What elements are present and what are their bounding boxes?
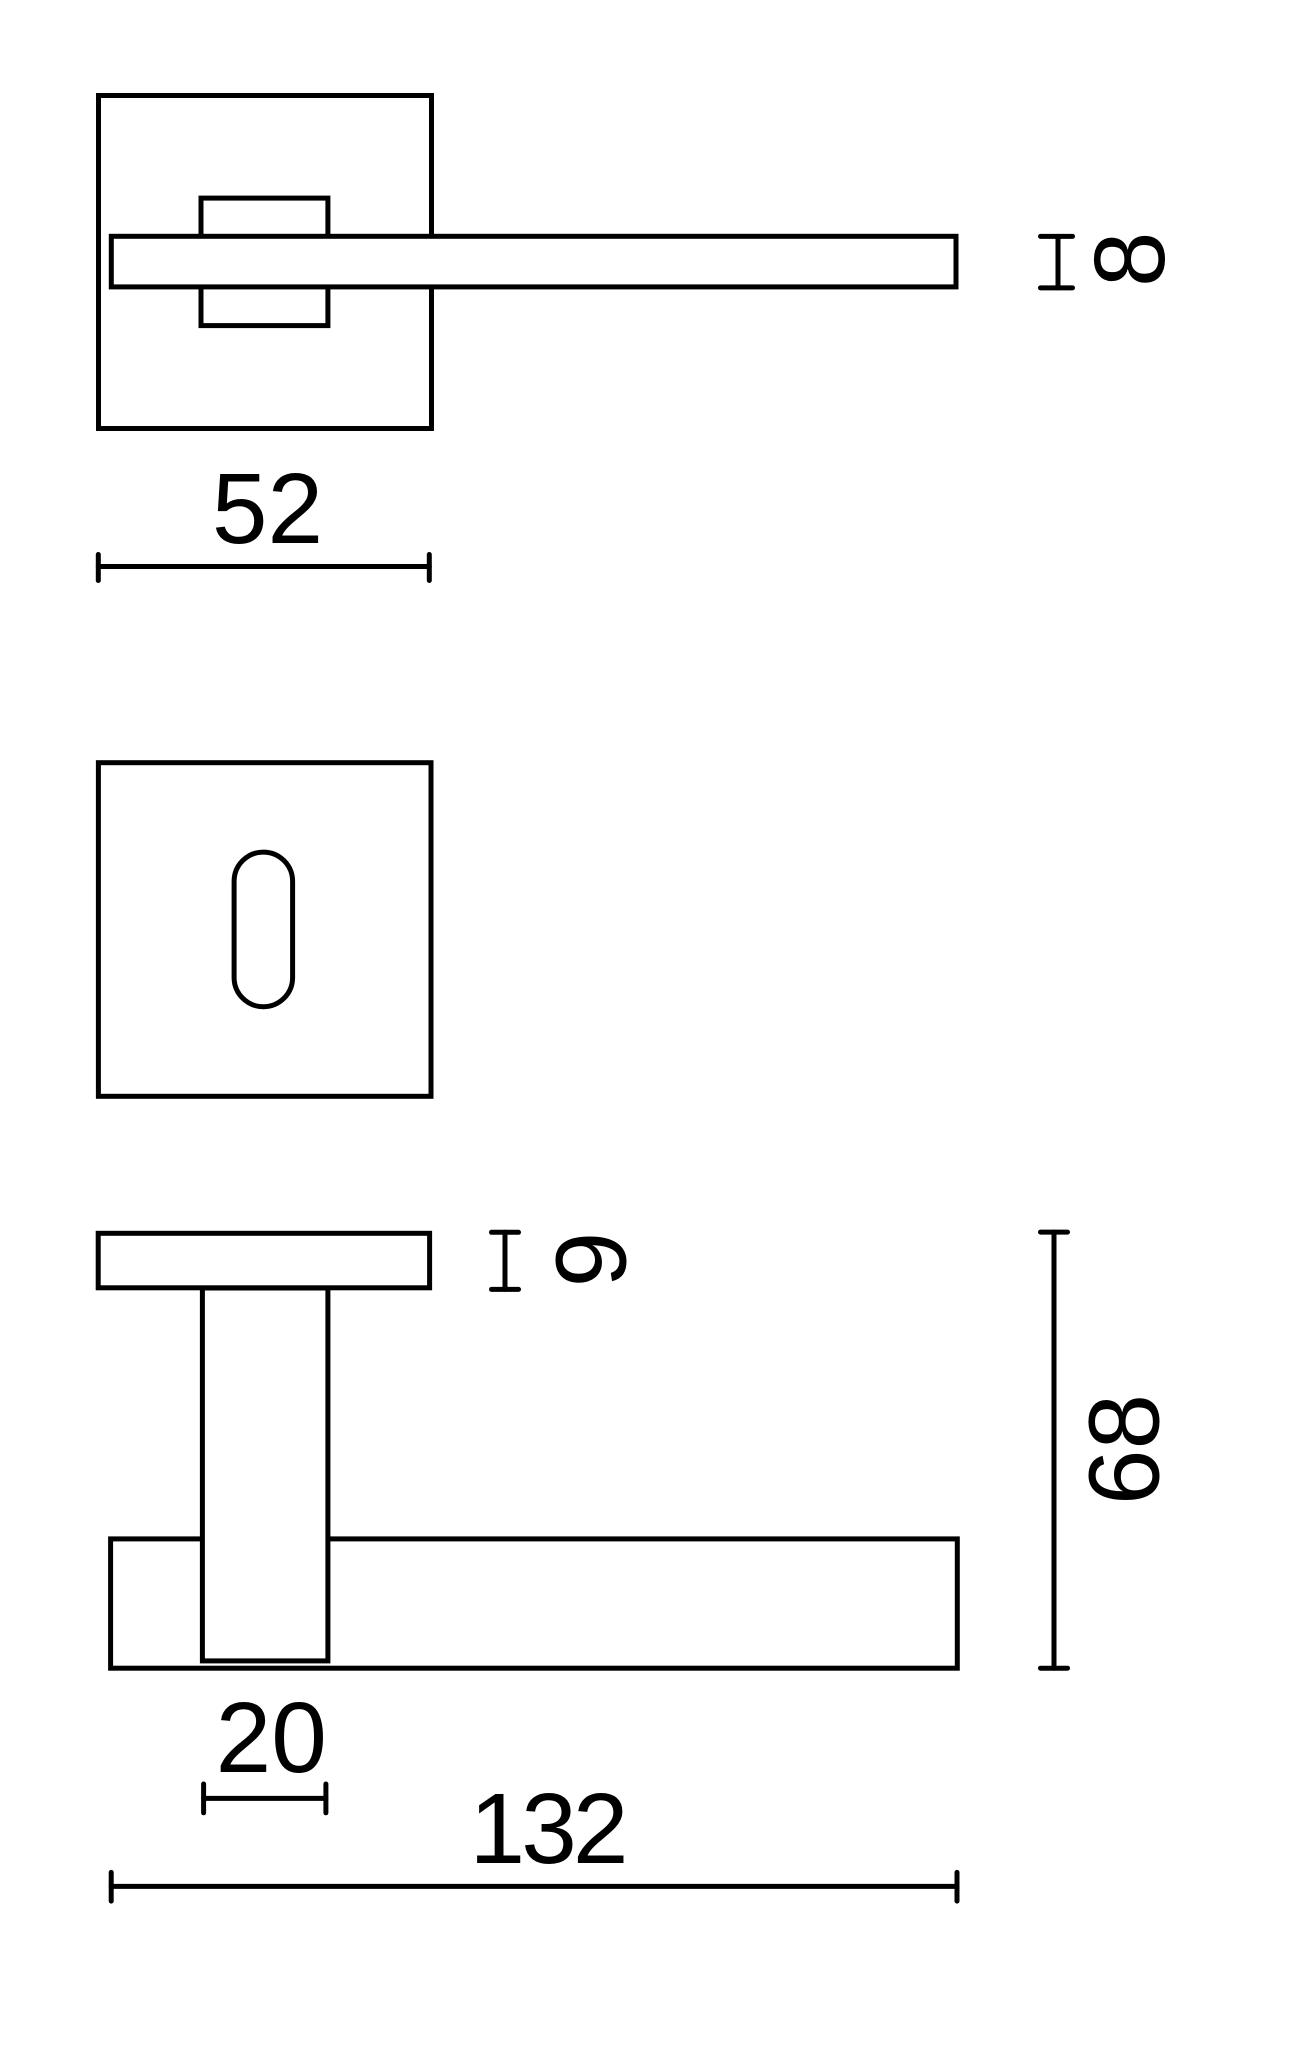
dimension line 52	[98, 555, 429, 581]
svg-text:52: 52	[212, 453, 323, 565]
keyhole oval	[234, 852, 293, 1007]
neck square behind lever	[201, 198, 328, 326]
lever bar (front view)	[111, 236, 956, 287]
svg-text:132: 132	[470, 1773, 629, 1885]
square rose plate (52x52)	[99, 96, 432, 429]
lever (side view)	[111, 1539, 958, 1668]
stem (side view)	[202, 1288, 328, 1661]
svg-text:20: 20	[216, 1682, 327, 1794]
svg-text:68: 68	[1069, 1394, 1181, 1505]
svg-text:8: 8	[1074, 231, 1186, 287]
dimension line 132	[111, 1872, 957, 1901]
dimension line 20	[204, 1784, 326, 1813]
dimension 68 vertical	[1041, 1232, 1068, 1668]
rose plate (side view)	[98, 1233, 429, 1288]
square escutcheon plate	[98, 763, 431, 1097]
svg-text:9: 9	[536, 1232, 648, 1288]
dimension 9 I-beam	[492, 1232, 519, 1289]
dimension 8 I-beam	[1041, 236, 1073, 288]
